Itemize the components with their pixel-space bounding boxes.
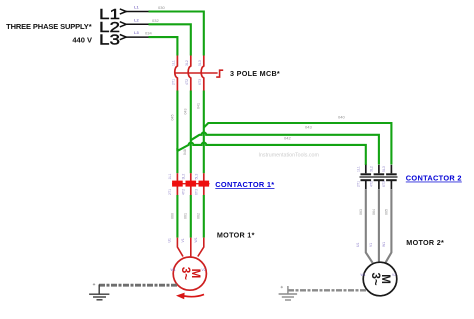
contactor K2 top bar 3 <box>386 173 397 175</box>
svg-text:060: 060 <box>171 213 175 219</box>
contactor K2 green stub 1 <box>365 163 367 166</box>
wire column3 contactor1 to motor1 <box>203 195 205 238</box>
svg-text:L3: L3 <box>134 30 139 35</box>
svg-text:L1: L1 <box>134 5 139 10</box>
svg-text:6T3: 6T3 <box>198 79 202 85</box>
wire branch from column 2 to contactor2 col middle (hop over col3) <box>191 132 379 164</box>
svg-text:U1: U1 <box>168 238 172 242</box>
contactor K2 bottom bar 1 <box>361 179 372 181</box>
wire L1 green feed <box>149 12 204 56</box>
svg-text:MOTOR 2*: MOTOR 2* <box>406 238 444 247</box>
svg-text:InstrumentationTools.com: InstrumentationTools.com <box>259 152 320 158</box>
svg-text:1L1: 1L1 <box>357 166 361 172</box>
3 pole MCB Q1 pole 1 <box>175 56 178 91</box>
svg-text:6T3: 6T3 <box>194 189 198 195</box>
motor M1 circle <box>173 257 206 290</box>
svg-text:3L2: 3L2 <box>181 174 185 180</box>
wire L2 green feed <box>149 24 191 55</box>
contactor K2 bottom bar 2 <box>374 179 385 181</box>
svg-text:4T2: 4T2 <box>370 181 374 187</box>
svg-text:2T1: 2T1 <box>168 189 172 195</box>
svg-text:CONTACTOR 1*: CONTACTOR 1* <box>215 180 274 189</box>
ground tick motor1 <box>93 283 95 285</box>
contactor K1 link line <box>172 183 210 185</box>
svg-text:3L2: 3L2 <box>370 166 374 172</box>
wire column 3 MCB to contactor1 <box>203 91 205 174</box>
svg-text:3~: 3~ <box>179 267 191 280</box>
ground PE motor1 stub <box>98 285 100 295</box>
svg-text:L2: L2 <box>134 17 139 22</box>
svg-text:440 V: 440 V <box>72 36 92 45</box>
svg-text:2T1: 2T1 <box>357 181 361 187</box>
wire L1 black lead <box>126 11 149 13</box>
svg-text:034: 034 <box>145 31 152 36</box>
svg-text:V1: V1 <box>181 238 185 242</box>
svg-text:CONTACTOR 2: CONTACTOR 2 <box>406 174 462 183</box>
contactor K1 red pole 3 stub <box>203 173 205 195</box>
3 pole MCB Q1 pole 3 <box>201 56 204 91</box>
wire column2 contactor1 to motor1 <box>190 195 192 238</box>
wire branch from column 1 to contactor2 col left (hops over col2 col3) <box>177 143 365 165</box>
MCB handle <box>216 70 223 77</box>
svg-text:1L1: 1L1 <box>168 174 172 180</box>
motor1 red lead 2 <box>190 238 192 257</box>
svg-text:063: 063 <box>359 209 363 215</box>
contactor K1 red pole 1 stub <box>176 173 178 195</box>
contactor K2 top bar 2 <box>374 173 385 175</box>
svg-text:4T2: 4T2 <box>181 189 185 195</box>
svg-text:3L2: 3L2 <box>185 60 189 66</box>
svg-text:041: 041 <box>197 103 201 109</box>
svg-text:W1: W1 <box>171 268 176 272</box>
wire column 1 MCB to contactor1 <box>176 91 178 151</box>
svg-text:V1: V1 <box>369 243 373 247</box>
supply terminal L3 <box>99 33 126 49</box>
ground PE motor2 dashed bond <box>288 289 366 291</box>
svg-text:2T1: 2T1 <box>172 79 176 85</box>
svg-text:4T2: 4T2 <box>185 79 189 85</box>
contactor K1 red pole 2 stub <box>190 173 192 195</box>
wire branch from column 3 to contactor2 col right <box>204 123 392 165</box>
svg-text:040: 040 <box>338 115 345 120</box>
3 pole MCB Q1 pole 2 <box>188 56 191 91</box>
wire gray column1 contactor2 to motor2 <box>366 189 373 263</box>
svg-text:V2: V2 <box>202 268 206 272</box>
svg-text:032: 032 <box>152 18 159 23</box>
svg-text:W1: W1 <box>194 237 198 242</box>
motor M2 symbol M 3~ <box>369 273 391 286</box>
svg-text:048: 048 <box>183 149 187 155</box>
svg-text:065: 065 <box>385 209 389 215</box>
svg-text:U1: U1 <box>356 243 360 247</box>
ground tick motor2 <box>281 286 283 288</box>
svg-text:5L3: 5L3 <box>194 174 198 180</box>
svg-text:3 POLE MCB*: 3 POLE MCB* <box>230 69 280 78</box>
contactor K1 block pole 2 <box>186 181 197 187</box>
svg-text:5L3: 5L3 <box>198 60 202 66</box>
wire L3 black lead <box>126 36 149 38</box>
svg-text:MOTOR 1*: MOTOR 1* <box>217 231 255 240</box>
ground PE motor2 symbol <box>279 293 298 295</box>
wire gray column3 contactor2 to motor2 <box>385 189 391 263</box>
wire column1 contactor1 to motor1 <box>176 195 178 238</box>
contactor K2 black stub top 2 <box>378 165 380 174</box>
svg-text:043: 043 <box>184 109 188 115</box>
supply terminal L2 <box>99 20 126 36</box>
svg-text:W1: W1 <box>361 273 366 277</box>
motor1 red lead 1 <box>177 238 183 257</box>
svg-text:THREE PHASE SUPPLY*: THREE PHASE SUPPLY* <box>6 22 92 31</box>
svg-text:061: 061 <box>184 213 188 219</box>
svg-text:062: 062 <box>197 213 201 219</box>
wire L2 black lead <box>126 23 149 25</box>
motor M1 rotation arrow <box>184 294 204 296</box>
contactor K2 black stub bottom 3 <box>390 181 392 189</box>
motor M1 symbol M 3~ <box>179 267 201 280</box>
contactor K2 black stub top 1 <box>365 165 367 174</box>
svg-text:1L1: 1L1 <box>172 60 176 66</box>
svg-text:064: 064 <box>372 209 376 215</box>
svg-text:045: 045 <box>171 115 175 121</box>
contactor K2 link line <box>360 176 398 178</box>
svg-text:3~: 3~ <box>369 273 381 286</box>
svg-text:5L3: 5L3 <box>382 166 386 172</box>
motor1 red lead 3 <box>198 238 204 257</box>
contactor K2 black stub bottom 1 <box>365 181 367 189</box>
contactor K2 black stub top 3 <box>390 165 392 174</box>
ground PE motor1 symbol <box>89 293 109 295</box>
contactor K2 black stub bottom 2 <box>378 181 380 189</box>
svg-text:042: 042 <box>284 136 291 141</box>
wire L3 green feed <box>149 37 178 55</box>
wire column 2 MCB to contactor1 <box>190 91 192 174</box>
motor M2 circle <box>363 262 397 296</box>
svg-text:030: 030 <box>158 5 165 10</box>
contactor K1 block pole 1 <box>172 181 183 187</box>
contactor K1 block pole 3 <box>199 181 210 187</box>
ground PE motor2 stub <box>287 286 289 294</box>
ground PE motor1 dashed bond <box>99 284 177 287</box>
contactor K2 bottom bar 3 <box>386 179 397 181</box>
svg-text:6T3: 6T3 <box>382 181 386 187</box>
contactor K2 top bar 1 <box>361 173 372 175</box>
wire gray column2 contactor2 to motor2 <box>378 189 380 262</box>
supply terminal L1 <box>99 7 126 23</box>
svg-text:W1: W1 <box>382 242 386 247</box>
svg-text:L3: L3 <box>99 33 120 49</box>
svg-text:043: 043 <box>305 125 312 130</box>
MCB linkage bar <box>175 72 218 74</box>
svg-text:V2: V2 <box>392 273 396 277</box>
